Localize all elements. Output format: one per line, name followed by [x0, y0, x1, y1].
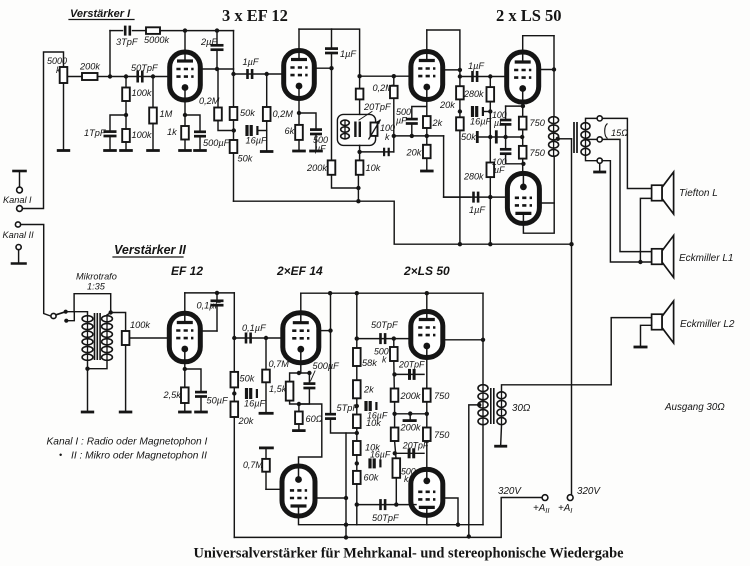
node anode line join [456, 523, 460, 527]
terminal bar Kanal I [14, 170, 26, 173]
svg-text:0,2M: 0,2M [273, 109, 294, 119]
wire mid col 1 [393, 361, 396, 402]
wire plate chain V6 [233, 293, 235, 372]
svg-text:750: 750 [434, 391, 450, 401]
svg-text:1M: 1M [160, 109, 173, 119]
ground 60ohm [292, 429, 306, 432]
svg-text:Verstärker II: Verstärker II [114, 243, 186, 257]
resistor 100k upper [122, 88, 130, 102]
wire T2 sec top out [502, 385, 612, 391]
wire ladder 2 [356, 398, 358, 414]
resistor 750-4 [423, 428, 431, 442]
ground T1 secondary [593, 171, 606, 174]
node cathode V7 right [307, 371, 311, 375]
wire Kanal II lower stem [18, 250, 20, 263]
resistor 100k grid V6 [122, 331, 130, 345]
capacitor 20TpF tuned [355, 122, 359, 138]
node RC bottom [297, 402, 301, 406]
ground 50uF [194, 411, 208, 414]
wire plate chain V1 [233, 31, 235, 107]
svg-text:320V: 320V [577, 486, 601, 497]
svg-text:320V: 320V [498, 486, 522, 497]
node midline 100uF [503, 135, 507, 139]
node 50TpF-2 tap [355, 502, 359, 506]
node input grid junction [108, 74, 112, 78]
wire 5TpF vertical [330, 293, 332, 414]
node screen V2 [329, 66, 333, 70]
terminal bar Kanal II [12, 262, 26, 265]
transformer T1 core [574, 122, 577, 153]
node mid col [392, 412, 396, 416]
node 16uF tap V6 [232, 391, 236, 395]
svg-text:Kanal I : Radio oder Magnetoph: Kanal I : Radio oder Magnetophon I [47, 437, 208, 448]
inductor tuned circuit [341, 120, 350, 140]
svg-text:16µF: 16µF [370, 450, 391, 460]
svg-text:280k: 280k [463, 172, 484, 182]
switch contact upper [64, 310, 68, 314]
wire 500k-2 to grid [395, 478, 397, 505]
node tube2 cathode [297, 111, 301, 115]
node 5TpF join ladder [355, 431, 359, 435]
svg-text:100k: 100k [132, 88, 152, 98]
terminal T1 sec top [597, 116, 602, 121]
wire rail V6 [185, 292, 235, 294]
wire tube8 anode [299, 516, 429, 525]
ground 1TpF [103, 149, 117, 152]
bus B+ top amp [234, 201, 572, 244]
resistor 20k plate V6 [231, 402, 239, 418]
resistor 200k-1 [391, 389, 399, 402]
wire 20k to ground [426, 158, 428, 169]
wire 16uF right stub [258, 130, 267, 132]
svg-text:200k: 200k [400, 423, 421, 433]
wire sec bot to ground [599, 163, 601, 170]
svg-text:16µF: 16µF [246, 136, 269, 146]
wire LS50-1 cathode [522, 102, 524, 117]
wire 5TpF bottom [331, 419, 357, 433]
wire T2 sec bottom [500, 425, 503, 444]
node tube2 grid [265, 72, 269, 76]
ground L2 [634, 346, 648, 349]
resistor 50k plate V3 [456, 117, 464, 130]
node 500uF V3 bottom [410, 134, 414, 138]
node coupling V6 [232, 336, 236, 340]
svg-text:6k: 6k [285, 126, 295, 136]
svg-text:16µF: 16µF [470, 117, 493, 127]
wire tube1 cathode [184, 100, 186, 126]
node 16uF tap V1 [232, 128, 236, 132]
svg-text:1k: 1k [167, 127, 177, 137]
resistor coil top [356, 89, 364, 100]
svg-text:Verstärker I: Verstärker I [70, 8, 131, 20]
svg-text:500µF: 500µF [203, 138, 231, 148]
node 2uF rail [215, 28, 219, 32]
svg-text:60Ω: 60Ω [306, 414, 323, 424]
transformer T2 core [491, 388, 494, 424]
wire 0,2M V2 to ground [266, 121, 268, 150]
transformer T1 primary [549, 116, 559, 157]
wire tube7 cathode [300, 363, 302, 373]
chassis bar mid [404, 419, 415, 422]
capacitor 16uF V6 [247, 388, 257, 399]
capacitor 50TpF-2 [381, 499, 386, 510]
svg-text:Ausgang 30Ω: Ausgang 30Ω [664, 402, 725, 413]
wire 100uF lower top [505, 137, 507, 148]
wire 100k upper lead [125, 77, 127, 88]
terminal T1 sec mid [597, 137, 602, 142]
wire chain V6 to bus [233, 417, 235, 537]
wire 100k lower to ground [125, 142, 127, 149]
wire coil column [359, 99, 361, 114]
wire 1TpF to ground [109, 136, 111, 149]
wire anode rail to trafo [553, 36, 555, 116]
svg-text:50TpF: 50TpF [131, 63, 159, 73]
wire 200k to grid node [98, 76, 111, 78]
potentiometer 100k tuned [371, 123, 378, 136]
node bus screen drop [344, 535, 348, 539]
node 1M top [151, 74, 155, 78]
ground 500uF V2 [309, 150, 323, 153]
wire 20TpF-2 line [395, 452, 424, 454]
wire 0,1uF bottom [216, 305, 218, 331]
svg-text:0,7M: 0,7M [269, 359, 290, 369]
wire T2 primary bottom [482, 425, 484, 524]
capacitor 2uF [211, 45, 224, 49]
node coil bottom [357, 150, 361, 154]
svg-text:20TpF: 20TpF [363, 102, 392, 112]
wire tube6 anode to rail [184, 293, 186, 314]
wire 0,2M grid V2 lead [266, 74, 268, 107]
wire Kanal I to pot [23, 52, 64, 209]
wire 0,7M-2 lead [265, 449, 267, 459]
wire tube8 top lead [299, 404, 322, 466]
svg-text:10k: 10k [366, 163, 381, 173]
wire 280k column bottom [489, 177, 491, 244]
terminal Kanal II lower [16, 245, 21, 250]
wire feedback top [110, 30, 123, 32]
node 16uF tap top amp [458, 109, 462, 113]
wire cathode ref line [394, 135, 444, 137]
wire tube6 screen [200, 330, 217, 332]
tube EF12 V2 [284, 51, 315, 99]
wire ladder 3 [356, 428, 358, 441]
capacitor 16uF top amp [473, 106, 483, 117]
svg-text:1,5k: 1,5k [269, 384, 287, 394]
resistor 750-3 [423, 389, 431, 402]
wire +AI vertical [571, 139, 573, 495]
wire LS50-2 anode [523, 157, 554, 233]
resistor 750 upper [519, 117, 527, 130]
capacitor 500uF V3 [406, 119, 418, 123]
tube LS50 V4 [507, 52, 539, 102]
capacitor plate bar A [476, 131, 479, 143]
capacitor 500uF V1 [194, 132, 206, 136]
resistor 0,7M grid V8 [262, 459, 270, 472]
svg-text:1µF: 1µF [469, 205, 486, 215]
wire 60ohm lead [298, 404, 300, 412]
svg-text:50k: 50k [240, 108, 255, 118]
resistor 200k V2 [328, 160, 336, 174]
wire Kanal II to switch [21, 225, 51, 317]
ground 0,2M V2 [260, 150, 274, 153]
node bus meets +AI line [569, 242, 573, 246]
switch contact lower [64, 319, 68, 323]
resistor 500k-1 [390, 347, 398, 361]
wire coupling1 line [234, 73, 267, 75]
tube LS50 V10 [411, 469, 443, 515]
chassis bar 0,7M-2 [260, 446, 272, 449]
wire rail tube2 [299, 28, 332, 30]
node rail ladder [355, 291, 359, 295]
wire 500uF V3 branch [412, 107, 427, 119]
ground 100k lower [119, 149, 133, 152]
wire coil box bottom [359, 145, 361, 160]
capacitor 1TpF [104, 132, 117, 136]
svg-text:Eckmiller L1: Eckmiller L1 [679, 253, 733, 264]
capacitor 50TpF-1 [381, 333, 386, 344]
svg-text:1µF: 1µF [468, 61, 485, 71]
node screen V7 join [328, 328, 332, 332]
svg-text:k: k [382, 355, 387, 365]
node rail LS50-3 [425, 291, 429, 295]
wire 10k bottom to bus [357, 175, 359, 201]
node 2uF bottom [215, 67, 219, 71]
wire 0,2M V3 column [393, 76, 395, 86]
tube EF12 V6 [169, 313, 200, 362]
svg-text:50µF: 50µF [207, 396, 230, 406]
capacitor 0,1uF screen V6 [211, 301, 224, 305]
wire 750 mid [522, 130, 524, 146]
svg-text:1µF: 1µF [243, 57, 260, 67]
capacitor 16uF ladder 2 [370, 458, 380, 468]
wire sec to 100k [111, 313, 126, 332]
wire signal row to tube3 [360, 75, 412, 77]
wire 0,7M-2 to grid [265, 472, 267, 490]
wire 50uF ground lead [200, 397, 202, 411]
switch pivot [51, 313, 56, 318]
node 750 mid bottom [425, 412, 429, 416]
svg-text:200k: 200k [400, 391, 421, 401]
resistor 58k [353, 348, 361, 366]
wire grid line [110, 76, 170, 78]
wire tube2 screen [315, 67, 332, 69]
wire tube1 anode to rail [184, 31, 186, 52]
wire series cap line [360, 151, 394, 153]
svg-text:100k: 100k [132, 130, 152, 140]
svg-text:50TpF: 50TpF [371, 320, 399, 330]
wire 1M to ground [152, 124, 154, 150]
svg-text:200k: 200k [306, 163, 327, 173]
wire LS50-3 screen [442, 339, 483, 341]
wire LS50-3 anode to rail [426, 293, 428, 312]
transformer T1 secondary [581, 122, 590, 156]
svg-text:280k: 280k [463, 89, 484, 99]
node 16uF tap 1 [355, 404, 359, 408]
ground Mikrotrafo [81, 411, 94, 414]
wire phase ref to 1uF [444, 136, 470, 197]
wire LS50-3 cathode [426, 358, 428, 389]
wire trafo sec top lead [107, 313, 111, 316]
node rail 5TpF branch [328, 291, 332, 295]
svg-text:500µF: 500µF [313, 361, 341, 371]
wire cathode V7 right [299, 373, 310, 383]
tube LS50 V9 [411, 312, 443, 358]
wire 500uF V2 ground lead [315, 134, 317, 150]
resistor 2k ladder [353, 380, 361, 398]
resistor 200k input [82, 73, 98, 80]
node tap to bus [467, 534, 471, 538]
wire 1k to ground [184, 140, 186, 150]
tube EF12 V3 [411, 52, 443, 100]
resistor 50k lower V1 [230, 140, 238, 153]
svg-text:20k: 20k [439, 100, 455, 110]
node bus chainV3 [458, 242, 462, 246]
node 50TpF-1 tap [355, 336, 359, 340]
wire 1uF V2 top [331, 29, 333, 48]
capacitor 16uF coupling V1 [247, 125, 257, 136]
wire 750 mid bottom amp [426, 402, 428, 428]
resistor 1k cathode V1 [181, 126, 189, 140]
capacitor 100uF upper [500, 120, 512, 124]
resistor 50k plate V1 [230, 107, 238, 120]
wire chain V6 mid [233, 387, 235, 401]
capacitor 16uF ladder 1 [366, 401, 376, 411]
wire 0,2M screen leads [217, 69, 219, 108]
node plate tap V1 [231, 72, 235, 76]
node trafo bottom [85, 367, 89, 371]
chassis bar 0,7M-1 [260, 412, 272, 415]
wire 0,1uF top [216, 293, 218, 301]
terminal +AII [542, 495, 548, 501]
potentiometer 5000k [60, 67, 68, 83]
svg-text:200k: 200k [79, 62, 100, 72]
svg-text:58k: 58k [362, 358, 377, 368]
svg-text:50TpF: 50TpF [372, 513, 400, 523]
capacitor 50uF V6 [195, 392, 207, 396]
wire 100k to ground [125, 345, 127, 411]
resistor 60k [353, 471, 361, 484]
wire LS50-4 grid entry [414, 504, 416, 506]
ground 500uF V1 [193, 149, 207, 152]
node screen join V8 [344, 496, 348, 500]
node cathode V7 [297, 371, 301, 375]
resistor 0,2M grid V2 [263, 107, 271, 121]
node 20TpF-1 tap [392, 372, 396, 376]
svg-text:µF: µF [494, 165, 505, 175]
svg-text:0,7M: 0,7M [243, 460, 263, 470]
wire 750-4 to LS50-4 [426, 441, 428, 470]
wire 2uF lead [216, 50, 218, 69]
wire return to Tiefton [640, 198, 651, 262]
resistor 100k lower [122, 129, 130, 142]
wire 750 lower to LS50-2 [522, 159, 524, 174]
wire rail tube3 [427, 30, 460, 70]
wire chain V3 to bus [459, 130, 461, 244]
wire tube7 screen [318, 330, 331, 332]
svg-text:2 x LS 50: 2 x LS 50 [496, 6, 562, 25]
ground 6k [292, 150, 306, 153]
tube EF14 V7 [283, 313, 319, 363]
svg-text:20TpF: 20TpF [398, 360, 425, 370]
leader 500uF V7 [311, 371, 316, 381]
svg-text:2k: 2k [363, 385, 374, 395]
svg-text:2µF: 2µF [200, 37, 218, 47]
svg-text:1TpF: 1TpF [84, 128, 107, 138]
node 100k top [124, 74, 128, 78]
wire LS50-4 anode [427, 515, 483, 524]
wire 200k V2 bottom [332, 175, 359, 188]
node cathode ref V3 [392, 134, 396, 138]
capacitor 100uF lower [500, 149, 512, 153]
wire 50uF branch [185, 369, 201, 391]
wire bridge over trafo [74, 294, 111, 312]
underline Verstaerker II [113, 256, 183, 258]
wire ladder 5 [356, 484, 358, 525]
resistor 10k ladder 2 [353, 441, 361, 455]
svg-text:60k: 60k [364, 473, 379, 483]
wire 50k to node [233, 120, 235, 140]
arrow 100k pot [369, 120, 381, 140]
capacitor 1uF LS50-1 [473, 71, 478, 82]
wire tube1 screen [200, 68, 234, 70]
svg-text:750: 750 [530, 118, 546, 128]
speaker Tiefton L [652, 172, 674, 214]
resistor 5000k feedback [146, 27, 160, 34]
node grid LS50-1 [488, 74, 492, 78]
svg-text:50k: 50k [238, 154, 253, 164]
svg-text:30Ω: 30Ω [512, 403, 531, 414]
node bus 10k [356, 199, 360, 203]
svg-text:EF 12: EF 12 [171, 264, 203, 278]
Mikrotrafo primary [82, 315, 93, 361]
capacitor 20TpF-1 [410, 369, 415, 380]
wire LS50-1 anode rail [523, 36, 554, 53]
node 200k/10k join [356, 186, 360, 190]
svg-text:•: • [59, 450, 62, 460]
svg-text:20TpF: 20TpF [402, 441, 429, 451]
wire coupling V6-V7 [234, 337, 266, 339]
wire pot wiper [67, 76, 82, 78]
node LS50-1 cathode [521, 104, 525, 108]
resistor 20k cathode V3 [423, 145, 431, 158]
resistor 20k plate V3 [456, 86, 464, 99]
shield box tuned circuit [337, 114, 375, 145]
Mikrotrafo core [95, 313, 101, 360]
wire 1M lead [152, 77, 154, 108]
node T1 center tap [556, 137, 560, 141]
wire 100k mid [125, 101, 127, 129]
wire T2 tap [469, 405, 479, 537]
svg-text:1:35: 1:35 [87, 282, 106, 292]
wire ladder [356, 293, 358, 348]
svg-text:Tiefton L: Tiefton L [679, 188, 718, 199]
bus B+ bottom amp [234, 498, 542, 538]
resistor 200k-2 [391, 428, 399, 442]
wire 280k column top [489, 77, 491, 88]
resistor 10k ladder 1 [353, 415, 361, 429]
svg-text:16µF: 16µF [244, 399, 267, 409]
resistor 750 lower [519, 146, 527, 159]
terminal +AI [567, 495, 573, 501]
wire 100uF lower bottom [506, 154, 524, 164]
svg-text:3TpF: 3TpF [116, 37, 139, 47]
wire mid col 3 [395, 441, 396, 458]
node grid LS50-3 [392, 336, 396, 340]
resistor 1,5k V7 [286, 382, 294, 401]
node screen join V4 [552, 67, 556, 71]
svg-text:3 x EF 12: 3 x EF 12 [222, 6, 288, 25]
wire 2,5k ground lead [184, 403, 186, 411]
